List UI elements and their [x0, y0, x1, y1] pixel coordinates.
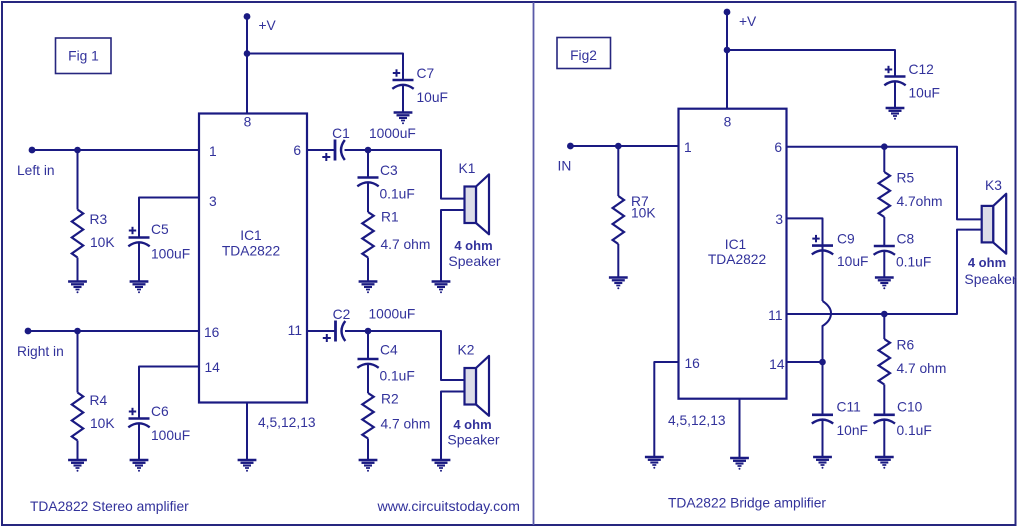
label C11 value 10nF — [837, 423, 868, 438]
svg-text:4.7ohm: 4.7ohm — [897, 194, 943, 209]
speaker K1 — [465, 174, 490, 234]
node Right in terminal — [25, 328, 32, 335]
wire junction to R7 — [617, 146, 619, 196]
svg-text:R3: R3 — [90, 212, 108, 227]
ground C5 — [130, 282, 149, 294]
svg-text:TDA2822 Stereo amplifier: TDA2822 Stereo amplifier — [30, 499, 189, 514]
label R4 value 10K — [90, 416, 115, 431]
label R4 — [90, 393, 108, 408]
label R3 — [90, 212, 108, 227]
ground R2 — [359, 460, 378, 472]
svg-text:R1: R1 — [381, 210, 399, 225]
svg-text:0.1uF: 0.1uF — [380, 187, 415, 202]
ground K1 — [432, 282, 451, 294]
svg-text:3: 3 — [209, 194, 217, 209]
wire K2 lower to ground — [441, 392, 465, 461]
ground C6 — [130, 460, 149, 472]
label C12 — [909, 62, 934, 77]
svg-text:11: 11 — [768, 308, 782, 323]
label C9 value 10uF — [837, 254, 868, 269]
ground R1 — [359, 282, 378, 294]
resistor R2 4.7 ohm — [362, 393, 373, 439]
label C1 — [332, 126, 350, 141]
ground R4 — [68, 460, 87, 472]
ground K2 — [432, 460, 451, 472]
svg-text:4 ohm: 4 ohm — [454, 238, 492, 253]
label R1 value 4.7 ohm — [381, 237, 431, 252]
label C6 — [151, 404, 169, 419]
wire C12 to ground — [894, 81, 896, 108]
wire junction to R6 — [883, 314, 885, 339]
junction pin6/R5 — [881, 143, 888, 150]
label C3 — [380, 163, 398, 178]
svg-text:C8: C8 — [897, 232, 915, 247]
label Fig2 box — [557, 38, 611, 69]
junction +V rail (left) — [244, 50, 251, 57]
label IC1 (left) — [240, 228, 261, 243]
label K3 Speaker — [964, 271, 1016, 287]
wire pin 6 to C1 — [307, 149, 335, 151]
label C11 — [837, 400, 861, 415]
label C5 — [151, 222, 169, 237]
svg-text:4 ohm: 4 ohm — [968, 255, 1006, 270]
op-amp IC1 TDA2822 (left) — [199, 114, 307, 403]
svg-text:4.7 ohm: 4.7 ohm — [897, 361, 947, 376]
capacitor C12 10uF — [884, 66, 905, 86]
wire R5 to C8 — [883, 217, 885, 246]
label C10 — [897, 400, 923, 415]
svg-text:11: 11 — [288, 323, 302, 338]
wire +V stem to rail (right) — [726, 12, 728, 109]
wire junction to R4 — [77, 331, 79, 393]
op-amp IC1 TDA2822 (right) — [679, 109, 787, 399]
node +V terminal (left) — [244, 13, 251, 20]
wire junction to K2 (upper) — [368, 331, 465, 380]
capacitor C11 10nF — [812, 415, 833, 424]
label IC1 (right) — [725, 237, 746, 252]
svg-text:4.7 ohm: 4.7 ohm — [381, 237, 431, 252]
wire pin 14 to C11 — [787, 361, 823, 363]
label R2 value 4.7 ohm — [381, 417, 431, 432]
pin 1 label (right) — [684, 140, 692, 155]
label C8 value 0.1uF — [896, 255, 931, 270]
svg-text:Fig 1: Fig 1 — [68, 48, 99, 63]
svg-text:+V: +V — [739, 14, 757, 29]
wire C3 to R1 — [367, 182, 369, 212]
svg-text:C4: C4 — [380, 343, 398, 358]
ground R7 — [609, 278, 628, 290]
svg-text:Left in: Left in — [17, 163, 55, 178]
pin 11 label (right) — [768, 308, 782, 323]
wire junction to K1 (upper) — [368, 150, 465, 199]
label C4 value 0.1uF — [380, 369, 415, 384]
label R2 — [381, 392, 399, 407]
node IN terminal — [567, 143, 574, 150]
svg-text:10uF: 10uF — [909, 86, 940, 101]
svg-text:1: 1 — [209, 144, 217, 159]
wire junction to R5 — [883, 147, 885, 172]
svg-text:Speaker: Speaker — [964, 271, 1016, 287]
svg-text:10K: 10K — [90, 416, 115, 431]
label +V (left) — [259, 18, 277, 33]
svg-text:3: 3 — [775, 212, 783, 227]
svg-text:R5: R5 — [897, 171, 915, 186]
label +V (right) — [739, 14, 757, 29]
label R6 value 4.7 ohm — [897, 361, 947, 376]
capacitor C2 1000uF — [323, 321, 346, 343]
label TDA2822 (left) — [222, 244, 280, 259]
label C7 — [417, 66, 435, 81]
junction pin1/R7 — [615, 143, 622, 150]
svg-text:Speaker: Speaker — [448, 253, 500, 269]
label Left in — [17, 163, 55, 178]
capacitor C10 0.1uF — [874, 415, 895, 424]
svg-text:Fig2: Fig2 — [570, 48, 597, 63]
svg-text:1000uF: 1000uF — [369, 126, 416, 141]
wire pin 11 to K3 (lower) — [787, 230, 982, 314]
svg-text:1: 1 — [684, 140, 692, 155]
wire junction to R3 — [77, 150, 79, 210]
ground C8 — [875, 278, 894, 290]
junction pin1/R3 — [74, 147, 81, 154]
label R6 — [897, 338, 915, 353]
wire +V stem to rail (left) — [246, 17, 248, 114]
ground IC1 (right) — [730, 458, 749, 470]
pin 3 label (right) — [775, 212, 783, 227]
svg-text:16: 16 — [204, 325, 220, 340]
label K3 — [985, 178, 1002, 193]
junction pin16/R4 — [74, 328, 81, 335]
wire Right in to pin 16 — [28, 330, 199, 332]
label Fig 1 box — [56, 38, 112, 74]
ground IC1 (left) — [238, 460, 257, 472]
svg-text:R4: R4 — [90, 393, 108, 408]
ground C11 — [813, 457, 832, 469]
resistor R4 10K — [72, 393, 83, 441]
pin 11 label (left) — [288, 323, 302, 338]
svg-text:www.circuitstoday.com: www.circuitstoday.com — [377, 499, 520, 515]
label K1 4 ohm — [454, 238, 492, 253]
pin 6 label (right) — [774, 140, 782, 155]
svg-text:8: 8 — [244, 115, 252, 130]
label C5 value 100uF — [151, 247, 190, 262]
wire R1 to ground — [367, 258, 369, 282]
ground C12 — [886, 108, 905, 120]
label C1 value 1000uF — [369, 126, 416, 141]
label R3 value 10K — [90, 235, 115, 250]
wire C6 to ground — [138, 423, 140, 460]
node +V terminal (right) — [724, 9, 731, 16]
wire pin 3 to C9 — [787, 218, 823, 301]
label C12 value 10uF — [909, 86, 940, 101]
svg-text:0.1uF: 0.1uF — [897, 423, 932, 438]
wire R3 to ground — [77, 258, 79, 282]
svg-text:1000uF: 1000uF — [369, 307, 416, 322]
wire IC1 power ground (left) — [246, 403, 248, 461]
ground C10 — [875, 457, 894, 469]
svg-text:C2: C2 — [333, 307, 351, 322]
wire C1 to junction — [345, 149, 369, 151]
caption www.circuitstoday.com — [377, 499, 520, 515]
capacitor C3 0.1uF — [357, 178, 378, 187]
resistor R3 10K — [72, 210, 83, 258]
wire junction to C4 — [367, 331, 369, 359]
svg-text:0.1uF: 0.1uF — [380, 369, 415, 384]
node Left in terminal — [29, 147, 36, 154]
pin 8 label (right) — [724, 115, 732, 130]
wire pin 6 to K3 (upper) — [787, 147, 982, 220]
svg-text:10uF: 10uF — [417, 90, 448, 105]
wire +V rail to C12 — [727, 50, 895, 77]
svg-text:14: 14 — [769, 357, 785, 372]
capacitor C9 10uF — [812, 235, 833, 255]
label IN — [558, 159, 572, 174]
label C8 — [897, 232, 915, 247]
pin 14 label (right) — [769, 357, 785, 372]
wire C2 to junction — [345, 330, 368, 332]
label C2 value 1000uF — [369, 307, 416, 322]
label Right in — [17, 344, 64, 359]
svg-text:Speaker: Speaker — [447, 432, 499, 448]
svg-text:IN: IN — [558, 159, 572, 174]
resistor R5 4.7ohm — [879, 172, 890, 217]
label R5 value 4.7ohm — [897, 194, 943, 209]
svg-text:C5: C5 — [151, 222, 169, 237]
capacitor C5 100uF — [128, 227, 149, 247]
svg-text:8: 8 — [724, 115, 732, 130]
svg-text:4 ohm: 4 ohm — [453, 417, 491, 432]
pin 16 label (right) — [685, 356, 701, 371]
svg-text:K1: K1 — [459, 161, 476, 176]
label R7 value 10K — [631, 206, 656, 221]
svg-text:K3: K3 — [985, 178, 1002, 193]
wire C8 to ground — [883, 251, 885, 278]
svg-text:TDA2822 Bridge amplifier: TDA2822 Bridge amplifier — [668, 496, 826, 511]
svg-text:R2: R2 — [381, 392, 399, 407]
svg-text:TDA2822: TDA2822 — [222, 244, 280, 259]
label K2 4 ohm — [453, 417, 491, 432]
svg-text:IC1: IC1 — [240, 228, 261, 243]
svg-text:C9: C9 — [837, 232, 855, 247]
label C3 value 0.1uF — [380, 187, 415, 202]
resistor R7 10K — [613, 196, 624, 244]
wire C11 to ground — [822, 419, 824, 457]
svg-text:C10: C10 — [897, 400, 923, 415]
svg-text:6: 6 — [774, 140, 782, 155]
capacitor C8 0.1uF — [874, 246, 895, 255]
wire R4 to ground — [77, 441, 79, 461]
speaker K2 — [465, 356, 490, 416]
wire pin 16 to ground — [654, 362, 678, 457]
ground C7 — [394, 113, 413, 125]
svg-text:C6: C6 — [151, 404, 169, 419]
wire junction to C3 — [367, 150, 369, 178]
wire R6 to C10 — [883, 385, 885, 415]
junction C2/C4/K2 — [365, 328, 372, 335]
svg-text:10K: 10K — [631, 206, 656, 221]
svg-text:4,5,12,13: 4,5,12,13 — [258, 415, 316, 430]
junction +V rail (right) — [724, 47, 731, 54]
wire pin 3 to C5 — [139, 198, 199, 238]
svg-text:C3: C3 — [380, 163, 398, 178]
svg-text:IC1: IC1 — [725, 237, 746, 252]
wire Left in to pin 1 — [32, 149, 199, 151]
label C4 — [380, 343, 398, 358]
capacitor C6 100uF — [128, 408, 149, 428]
capacitor C1 1000uF — [322, 140, 345, 162]
wire C7 to ground — [402, 85, 404, 113]
svg-text:4,5,12,13: 4,5,12,13 — [668, 413, 726, 428]
svg-text:R6: R6 — [897, 338, 915, 353]
svg-text:10uF: 10uF — [837, 254, 868, 269]
label pins 4,5,12,13 (left) — [258, 415, 316, 430]
svg-text:C1: C1 — [332, 126, 350, 141]
wire +V rail to C7 — [247, 54, 403, 81]
label K2 Speaker — [447, 432, 499, 448]
svg-text:K2: K2 — [458, 343, 475, 358]
pin 14 label (left) — [205, 360, 221, 375]
svg-text:C11: C11 — [837, 400, 861, 415]
ground pin 16 — [645, 457, 664, 469]
svg-text:14: 14 — [205, 360, 221, 375]
wire C9 junction down to C11 — [822, 362, 824, 415]
svg-text:+V: +V — [259, 18, 277, 33]
svg-text:10nF: 10nF — [837, 423, 868, 438]
svg-text:16: 16 — [685, 356, 701, 371]
resistor R6 4.7 ohm — [879, 339, 890, 385]
label K1 — [459, 161, 476, 176]
label K2 — [458, 343, 475, 358]
label R1 — [381, 210, 399, 225]
svg-text:TDA2822: TDA2822 — [708, 252, 766, 267]
wire C9 hop over pin 11 wire — [823, 301, 832, 362]
svg-text:6: 6 — [293, 143, 301, 158]
label K3 4 ohm — [968, 255, 1006, 270]
wire C10 to ground — [883, 419, 885, 457]
wire pin 11 to C2 — [307, 330, 336, 332]
svg-text:0.1uF: 0.1uF — [896, 255, 931, 270]
svg-text:10K: 10K — [90, 235, 115, 250]
caption TDA2822 Stereo amplifier — [30, 499, 189, 514]
label C6 value 100uF — [151, 428, 190, 443]
svg-text:4.7 ohm: 4.7 ohm — [381, 417, 431, 432]
pin 3 label (left) — [209, 194, 217, 209]
label R5 — [897, 171, 915, 186]
svg-text:100uF: 100uF — [151, 247, 190, 262]
wire C5 to ground — [138, 242, 140, 282]
capacitor C7 10uF — [392, 69, 413, 89]
pin 6 label (left) — [293, 143, 301, 158]
ground R3 — [68, 282, 87, 294]
resistor R1 4.7 ohm — [362, 212, 373, 257]
wire IN to pin 1 — [570, 145, 678, 147]
pin 1 label (left) — [209, 144, 217, 159]
junction pin11/R6 — [881, 311, 888, 318]
pin 16 label (left) — [204, 325, 220, 340]
label TDA2822 (right) — [708, 252, 766, 267]
label C10 value 0.1uF — [897, 423, 932, 438]
wire R7 to ground — [617, 244, 619, 278]
svg-text:C12: C12 — [909, 62, 934, 77]
wire R2 to ground — [367, 439, 369, 461]
svg-text:Right in: Right in — [17, 344, 64, 359]
junction C1/C3/K1 — [365, 147, 372, 154]
svg-text:100uF: 100uF — [151, 428, 190, 443]
label R7 — [631, 194, 649, 209]
svg-text:C7: C7 — [417, 66, 435, 81]
wire C4 to R2 — [367, 364, 369, 394]
label C7 value 10uF — [417, 90, 448, 105]
junction C9/C11 on pin 14 — [819, 359, 826, 366]
label pins 4,5,12,13 (right) — [668, 413, 726, 428]
wire IC1 power ground (right) — [739, 399, 741, 458]
pin 8 label (left) — [244, 115, 252, 130]
capacitor C4 0.1uF — [357, 359, 378, 368]
label K1 Speaker — [448, 253, 500, 269]
wire pin 14 to C6 — [139, 367, 199, 419]
wire K1 lower to ground — [441, 210, 465, 282]
label C9 — [837, 232, 855, 247]
speaker K3 — [982, 194, 1007, 254]
caption TDA2822 Bridge amplifier — [668, 496, 826, 511]
label C2 — [333, 307, 351, 322]
